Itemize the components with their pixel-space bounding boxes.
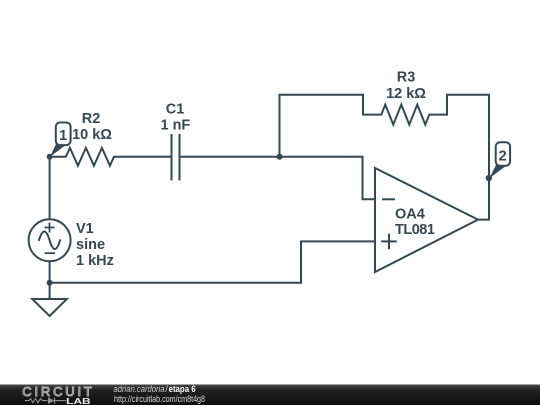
svg-text:sine: sine: [76, 237, 105, 253]
svg-text:R3: R3: [397, 70, 416, 86]
svg-text:LAB: LAB: [66, 396, 91, 405]
svg-text:C1: C1: [166, 102, 185, 118]
svg-text:TL081: TL081: [395, 222, 435, 238]
svg-text:1 kHz: 1 kHz: [76, 253, 114, 269]
svg-text:R2: R2: [82, 111, 101, 127]
svg-text:1: 1: [59, 128, 67, 144]
svg-text:10 kΩ: 10 kΩ: [72, 127, 112, 143]
svg-text:V1: V1: [76, 221, 94, 237]
svg-text:1 nF: 1 nF: [160, 118, 190, 134]
svg-text:12 kΩ: 12 kΩ: [386, 86, 426, 102]
svg-text:OA4: OA4: [395, 206, 425, 222]
svg-text:2: 2: [499, 149, 507, 165]
svg-text:http://circuitlab.com/cm8t4g8: http://circuitlab.com/cm8t4g8: [114, 394, 205, 405]
